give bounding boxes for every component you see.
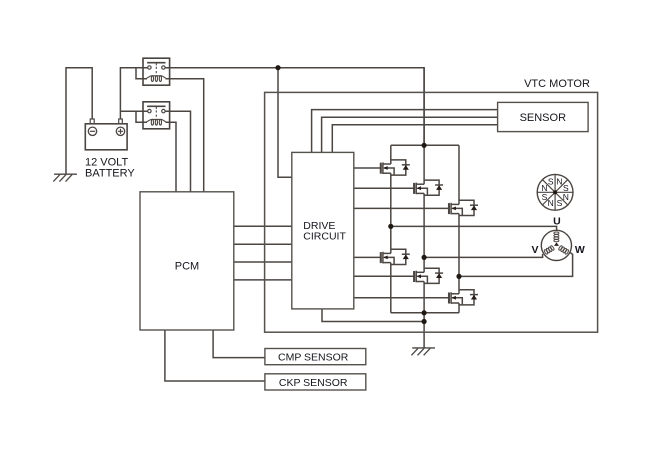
wire gate Q5 — [354, 275, 415, 277]
wire right column source Q6 — [458, 303, 460, 313]
wire relay K2 switch output to PCM — [164, 111, 191, 192]
wire branch to relay K2 — [120, 110, 149, 112]
wire middle column source Q5 to ground — [423, 282, 425, 348]
svg-text:CKP SENSOR: CKP SENSOR — [279, 377, 348, 389]
wire relay K1 coil output to PCM — [166, 79, 204, 192]
transistor Q6 — [449, 290, 478, 305]
wire battery positive riser to relay K1 — [120, 68, 149, 120]
label DRIVE CIRCUIT — [303, 220, 346, 242]
svg-text:CIRCUIT: CIRCUIT — [303, 230, 346, 242]
battery BT1 12 volt — [85, 119, 127, 150]
svg-text:BATTERY: BATTERY — [85, 167, 135, 179]
wire gate Q2 — [354, 187, 415, 189]
wire left column source Q4 — [390, 263, 392, 313]
wire drive circuit ground return — [322, 309, 424, 322]
wire battery negative to ground — [66, 68, 92, 174]
svg-text:CMP SENSOR: CMP SENSOR — [278, 352, 349, 364]
winding W — [558, 245, 569, 254]
wire relay K2 coil feed — [136, 111, 147, 122]
wire phase V to motor — [424, 254, 542, 257]
svg-text:N: N — [556, 177, 562, 187]
svg-text:S: S — [548, 177, 554, 187]
transistor Q4 — [381, 249, 410, 264]
CMP sensor box — [265, 349, 366, 365]
wire drive circuit to sensor 3 — [332, 125, 497, 153]
wire gate Q6 — [354, 297, 449, 299]
wire left column phase U node — [390, 173, 392, 253]
rotor magnet wheel — [537, 174, 573, 210]
wire gate Q3 — [354, 207, 449, 209]
ground (battery) — [53, 174, 77, 181]
svg-text:N: N — [548, 198, 554, 208]
wire node B+ branch to drive circuit — [278, 68, 292, 178]
svg-text:U: U — [553, 215, 561, 227]
wire right column drain Q3 — [458, 145, 460, 204]
wire PCM to drive circuit signal 2 — [234, 243, 292, 245]
wire relay K1 coil feed — [136, 68, 147, 79]
wire right column phase W node — [458, 214, 460, 294]
transistor Q1 — [381, 160, 410, 175]
winding V — [544, 245, 555, 254]
wire relay K2 coil output to PCM — [166, 122, 177, 192]
wire left column drain Q1 — [390, 145, 392, 164]
wire phase U to motor — [391, 226, 557, 230]
relay K1 — [143, 58, 170, 85]
svg-text:W: W — [575, 244, 585, 256]
wire gate Q1 — [354, 167, 381, 169]
wire PCM to drive circuit signal 4 — [234, 279, 292, 281]
PCM box — [140, 192, 234, 330]
wire middle column phase V node — [423, 193, 425, 272]
wire relay K1 switch output to bridge feed — [164, 68, 424, 146]
wire PCM to CMP sensor — [213, 330, 265, 358]
junction node dots — [275, 65, 461, 324]
winding U — [554, 232, 559, 242]
transistor Q3 — [449, 200, 478, 215]
svg-text:N: N — [563, 192, 569, 202]
wire gate Q4 — [354, 256, 381, 258]
relay K2 — [143, 102, 170, 129]
CKP sensor box — [265, 374, 366, 390]
drive circuit box — [292, 152, 354, 309]
transistor Q2 — [414, 180, 443, 195]
wire bridge bottom rail — [391, 312, 459, 314]
wire PCM to CKP sensor — [165, 330, 265, 381]
motor M windings — [541, 230, 571, 260]
wire phase W to motor — [459, 253, 573, 277]
VTC motor enclosure box — [265, 92, 598, 332]
label 12 VOLT BATTERY — [85, 156, 135, 179]
svg-text:VTC MOTOR: VTC MOTOR — [524, 78, 590, 90]
star point — [554, 242, 559, 246]
svg-text:SENSOR: SENSOR — [520, 112, 567, 124]
wire bridge top rail — [391, 144, 459, 146]
wire drive circuit to sensor 1 — [312, 110, 498, 153]
wire PCM to drive circuit signal 3 — [234, 261, 292, 263]
sensor box — [498, 102, 588, 131]
svg-text:PCM: PCM — [175, 261, 199, 273]
svg-text:V: V — [531, 244, 538, 256]
wire drive circuit to sensor 2 — [322, 117, 498, 152]
wire middle column feed and drain Q2 — [423, 68, 425, 185]
wire PCM to drive circuit signal 1 — [234, 225, 292, 227]
ground (bridge) — [411, 348, 435, 355]
transistor Q5 — [414, 268, 443, 283]
